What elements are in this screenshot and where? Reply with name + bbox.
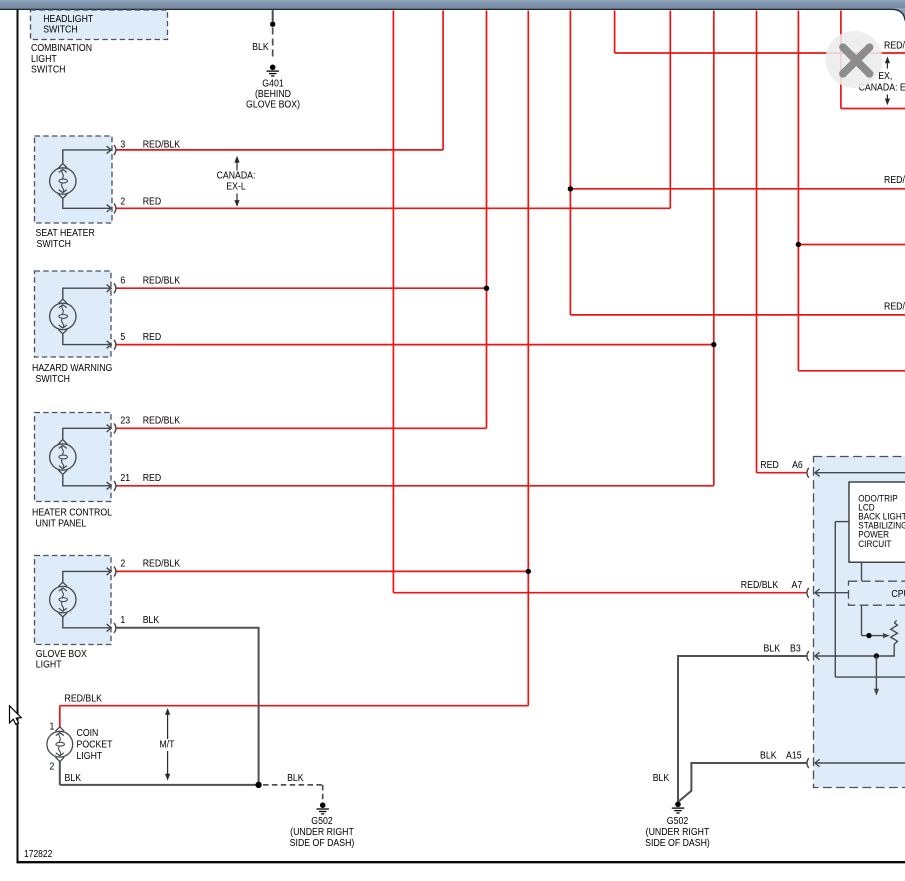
svg-text:172822: 172822 <box>24 848 52 859</box>
svg-text:2: 2 <box>120 196 125 208</box>
svg-text:SWITCH: SWITCH <box>36 373 71 385</box>
svg-text:RED/BLK: RED/BLK <box>143 275 181 287</box>
svg-text:5: 5 <box>120 331 125 343</box>
svg-text:BLK: BLK <box>65 772 82 784</box>
svg-text:21: 21 <box>120 472 130 484</box>
svg-text:CPU: CPU <box>891 588 905 600</box>
svg-text:SWITCH: SWITCH <box>43 24 78 36</box>
svg-text:1: 1 <box>120 614 125 626</box>
svg-text:RED/BLK: RED/BLK <box>884 40 905 52</box>
svg-text:RED/BLK: RED/BLK <box>143 139 181 151</box>
svg-text:A6: A6 <box>792 460 803 472</box>
svg-text:BLK: BLK <box>653 772 670 784</box>
svg-text:RED: RED <box>143 331 162 343</box>
svg-text:RED/BLK: RED/BLK <box>65 693 103 705</box>
svg-text:B3: B3 <box>790 643 801 655</box>
svg-text:M/T: M/T <box>159 739 174 751</box>
svg-text:GLOVE BOX): GLOVE BOX) <box>246 99 300 111</box>
svg-text:RED/BLK: RED/BLK <box>143 415 181 427</box>
svg-text:BLK: BLK <box>143 614 160 626</box>
svg-text:2: 2 <box>50 761 55 773</box>
svg-text:RED: RED <box>143 472 162 484</box>
svg-text:CANADA:: CANADA: <box>217 170 256 182</box>
svg-text:6: 6 <box>120 275 125 287</box>
svg-text:UNIT PANEL: UNIT PANEL <box>36 518 87 530</box>
svg-text:SIDE OF DASH): SIDE OF DASH) <box>290 837 355 849</box>
svg-text:LIGHT: LIGHT <box>36 659 62 671</box>
svg-text:LIGHT: LIGHT <box>77 750 103 762</box>
svg-text:RED: RED <box>143 196 162 208</box>
svg-text:RED/BLK: RED/BLK <box>884 174 905 186</box>
svg-text:BLK: BLK <box>760 750 777 762</box>
svg-text:23: 23 <box>120 415 130 427</box>
svg-text:CIRCUIT: CIRCUIT <box>858 538 892 549</box>
svg-text:POCKET: POCKET <box>77 739 113 751</box>
svg-text:2: 2 <box>120 558 125 570</box>
svg-text:RED/BLK: RED/BLK <box>884 301 905 313</box>
svg-text:SWITCH: SWITCH <box>31 64 66 76</box>
svg-text:BLK: BLK <box>287 772 304 784</box>
svg-text:RED: RED <box>760 460 779 472</box>
svg-text:A7: A7 <box>792 579 803 591</box>
svg-text:RED/BLK: RED/BLK <box>143 558 181 570</box>
svg-text:EX,: EX, <box>878 71 892 83</box>
svg-text:SWITCH: SWITCH <box>37 238 72 250</box>
svg-text:BLK: BLK <box>764 643 781 655</box>
svg-text:EX-L: EX-L <box>226 181 245 193</box>
svg-text:A15: A15 <box>786 750 802 762</box>
svg-text:3: 3 <box>120 139 125 151</box>
svg-text:BLK: BLK <box>252 41 269 53</box>
svg-text:RED/BLK: RED/BLK <box>741 579 779 591</box>
svg-text:1: 1 <box>50 721 55 733</box>
svg-text:SIDE OF DASH): SIDE OF DASH) <box>645 837 710 849</box>
svg-text:COIN: COIN <box>77 727 99 739</box>
